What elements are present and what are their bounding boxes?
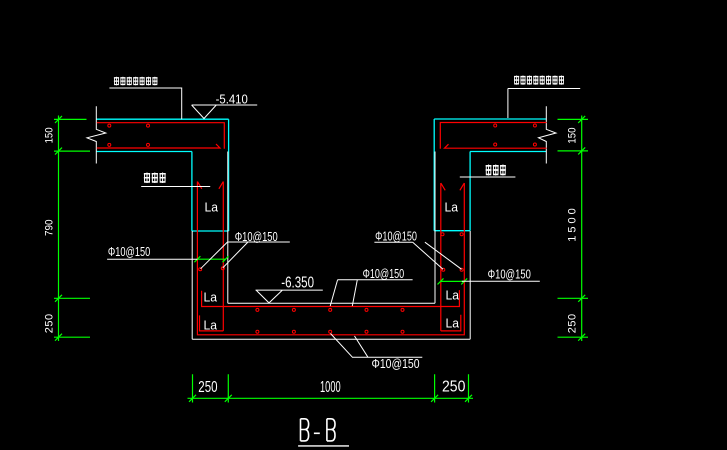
right La lap bar (red) bbox=[441, 315, 461, 331]
right dimension extension lines (green) bbox=[558, 119, 589, 337]
svg-text:La: La bbox=[204, 291, 218, 305]
svg-text:Φ10@150: Φ10@150 bbox=[488, 267, 531, 282]
elevation symbol -6.350 (white line + open triangle) bbox=[256, 290, 323, 303]
svg-text:La: La bbox=[204, 319, 218, 333]
right wall distribution bar dots (red) bbox=[441, 233, 463, 271]
svg-text:250: 250 bbox=[44, 314, 56, 333]
leader: Φ10@150 center label (white) bbox=[330, 280, 412, 306]
svg-text:La: La bbox=[446, 317, 460, 331]
left dimension ticks (green) bbox=[55, 116, 62, 341]
left outer wall rebar top hook (red) bbox=[197, 182, 201, 189]
svg-text:790: 790 bbox=[44, 220, 56, 237]
right slab rebar section dots (red) bbox=[494, 124, 537, 146]
svg-text:250: 250 bbox=[198, 379, 217, 396]
svg-text:Φ10@150: Φ10@150 bbox=[235, 229, 278, 244]
left break line (white zigzag) bbox=[87, 106, 106, 163]
U-shaped pit rebar: outer verticals + bottom bar (red) bbox=[197, 182, 464, 335]
bottom dimension ticks (green) bbox=[189, 395, 472, 402]
svg-text:-5.410: -5.410 bbox=[216, 92, 248, 106]
bottom slab top rebar with La end hooks (red) bbox=[202, 290, 460, 306]
right inner wall rebar with top hook (red) bbox=[441, 183, 445, 331]
svg-text:Φ10@150: Φ10@150 bbox=[108, 244, 150, 259]
left beam 楼面梁 outline (cyan) bbox=[192, 119, 229, 231]
label 楼面梁 right (3 stick glyphs) bbox=[486, 165, 506, 176]
right dimension chain line (green) bbox=[581, 116, 583, 342]
label 楼面梁 left (3 stick glyphs) bbox=[144, 173, 166, 184]
left inner wall rebar with top hook (red) bbox=[219, 182, 223, 331]
left pit wall faces (white) bbox=[192, 152, 228, 340]
right slab outline (cyan) bbox=[434, 119, 546, 152]
right slab bottom rebar with hook (red) bbox=[445, 144, 547, 148]
right wall rebar pointer line (green) bbox=[438, 278, 468, 284]
left dimension chain line (green) bbox=[58, 116, 60, 342]
left slab top rebar (red) bbox=[97, 123, 225, 149]
left wall distribution bar dots (red) bbox=[199, 267, 225, 271]
svg-text:La: La bbox=[445, 201, 459, 215]
leader: 地下室板面标高 (white) bbox=[109, 88, 181, 119]
right break line (white zigzag) bbox=[539, 106, 557, 163]
svg-text:La: La bbox=[205, 201, 219, 215]
right beam 楼面梁 outline (cyan) bbox=[434, 119, 470, 231]
svg-text:-6.350: -6.350 bbox=[281, 275, 314, 292]
left wall rebar pointer line (green) bbox=[194, 256, 228, 262]
svg-text:Φ10@150: Φ10@150 bbox=[375, 228, 417, 243]
leader: Φ10@150 bottom label (white) bbox=[331, 334, 423, 358]
svg-text:150: 150 bbox=[567, 128, 579, 144]
left dimension extension lines (green) bbox=[54, 119, 90, 337]
svg-text:La: La bbox=[446, 289, 460, 303]
leader: 楼面梁 right (white) bbox=[460, 176, 516, 178]
elevation symbol -5.410 (white line + open triangle) bbox=[192, 105, 258, 119]
bottom dimension extension lines (green) bbox=[193, 374, 469, 402]
label 地下室顶板面标高 (8 stick glyphs) bbox=[514, 76, 564, 85]
leader: 地下室顶板面标高 (white) bbox=[508, 89, 580, 119]
bottom slab rebar section dots top row (red) bbox=[256, 308, 404, 311]
label 地下室板面标高 (7 stick glyphs) bbox=[114, 77, 158, 86]
leader: 楼面梁 left (white) bbox=[141, 186, 210, 188]
leader: Φ10@150 upper-left label (white) bbox=[201, 242, 290, 269]
left slab rebar section dots (red) bbox=[108, 124, 150, 146]
left slab outline (cyan) bbox=[96, 119, 228, 151]
bottom dimension chain line (green) bbox=[188, 397, 474, 399]
bottom slab outer line (white) bbox=[192, 338, 470, 340]
svg-text:Φ10@150: Φ10@150 bbox=[363, 266, 405, 281]
right slab top rebar (red) bbox=[440, 123, 546, 149]
leader: Φ10@150 right label (white) bbox=[462, 280, 540, 282]
right pit wall faces (white) bbox=[435, 152, 470, 340]
title underline B-B (white) bbox=[298, 445, 349, 447]
svg-text:Φ10@150: Φ10@150 bbox=[372, 356, 420, 371]
right outer wall rebar top hook (red) bbox=[460, 183, 464, 190]
pit floor inner line (white) bbox=[228, 302, 435, 304]
leader: Φ10@150 upper-right label (white) bbox=[374, 242, 461, 269]
svg-text:250: 250 bbox=[442, 379, 466, 396]
right dimension ticks (green) bbox=[578, 116, 585, 341]
bottom slab rebar section dots bottom row (red) bbox=[256, 330, 404, 333]
left slab bottom rebar with hook (red) bbox=[97, 144, 220, 148]
svg-text:1000: 1000 bbox=[320, 379, 341, 396]
left La lap bar (red) bbox=[200, 315, 224, 331]
title text B-B (stick style) bbox=[301, 419, 336, 441]
svg-text:250: 250 bbox=[567, 314, 579, 333]
leader: Φ10@150 left wall label (white) bbox=[107, 258, 197, 260]
svg-text:150: 150 bbox=[44, 127, 56, 143]
